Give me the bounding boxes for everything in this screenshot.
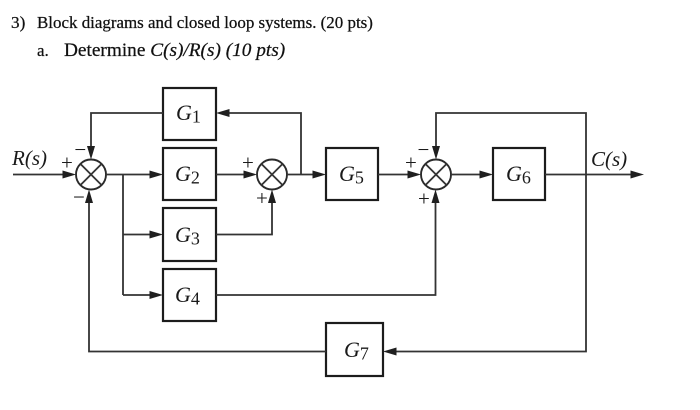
svg-text:+: +	[418, 187, 430, 211]
sign - at S3 top input	[418, 138, 430, 162]
svg-text:+: +	[405, 151, 417, 175]
wire branch node after S1 down to G3 and G4 inputs	[122, 175, 124, 296]
svg-text:+: +	[242, 151, 254, 175]
svg-text:−: −	[418, 138, 430, 162]
svg-text:Determine C(s)/R(s) (10 pts): Determine C(s)/R(s) (10 pts)	[64, 40, 285, 61]
summing junction S2	[257, 160, 287, 190]
sign + at S1 left input	[61, 150, 73, 174]
wire input R(s) to summer S1	[13, 171, 76, 179]
wire branch up to G1 input (feedback)	[216, 109, 301, 175]
heading line 2	[37, 40, 285, 61]
wire feedback from output branch down to G7 input	[383, 175, 586, 356]
sign + at S3 bottom input	[418, 187, 430, 211]
block G4	[163, 269, 216, 321]
svg-text:Block diagrams and closed loop: Block diagrams and closed loop systems. …	[37, 13, 373, 32]
node R(s) input label	[11, 146, 47, 170]
node C(s) output label	[591, 147, 627, 171]
summing junction S3	[421, 160, 451, 190]
block G3	[163, 208, 216, 261]
svg-text:R(s): R(s)	[11, 146, 47, 170]
sign + at S3 left input	[405, 151, 417, 175]
block G6	[493, 148, 545, 200]
sign + at S2 bottom input	[256, 186, 268, 210]
wire G1 output to S1 top input	[87, 113, 163, 160]
svg-text:3): 3)	[11, 13, 25, 32]
wire G6 output to C(s)	[545, 171, 644, 179]
wire G3 output up to S2 bottom input	[216, 190, 276, 235]
svg-text:+: +	[256, 186, 268, 210]
wire S2 output to G5 with branch to G1 feedback	[287, 171, 326, 179]
sign + at S2 left input	[242, 151, 254, 175]
wire S1 to G2	[106, 171, 163, 179]
block G7	[326, 323, 383, 376]
sign - at S1 bottom input	[73, 185, 85, 209]
wire feedback from output branch up over G6 to S3 top	[432, 113, 586, 175]
wire G4 output to S3 bottom input	[216, 190, 440, 296]
svg-text:+: +	[61, 150, 73, 174]
block G5	[326, 148, 378, 200]
wire branch to G4 input	[123, 291, 163, 299]
svg-text:a.: a.	[37, 41, 49, 60]
svg-text:−: −	[74, 138, 86, 162]
block G2	[163, 148, 216, 200]
wire S3 output to G6	[451, 171, 493, 179]
heading line 1	[11, 13, 373, 32]
svg-text:C(s): C(s)	[591, 147, 627, 171]
summing junction S1	[76, 160, 106, 190]
wire G5 output to summer S3	[378, 171, 421, 179]
block G1	[163, 88, 216, 140]
sign - at S1 top input	[74, 138, 86, 162]
wire G7 output to S1 bottom input	[85, 190, 326, 352]
wire branch to G3 input	[123, 231, 163, 239]
svg-text:−: −	[73, 185, 85, 209]
wire G2 output to summer S2	[216, 171, 257, 179]
